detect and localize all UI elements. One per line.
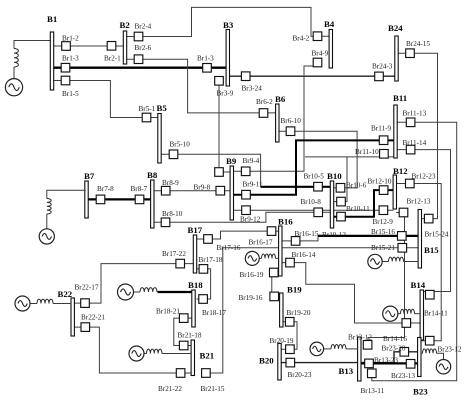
wire branch 16-17: [196, 231, 279, 239]
wire gen G18 to B18 (thick): [158, 291, 193, 293]
generator G7: [39, 190, 86, 244]
breaker Br21-22: [176, 369, 185, 378]
svg-text:Br16-17: Br16-17: [249, 238, 273, 246]
generator G18: [118, 284, 158, 300]
svg-text:Br20-23: Br20-23: [288, 371, 312, 379]
breaker Br10-8: [314, 208, 323, 217]
wire branch 1-3 (thick): [52, 67, 226, 69]
breaker Br20-23: [286, 358, 295, 367]
bus B8: [147, 170, 158, 228]
breaker Br11-14: [406, 145, 415, 154]
generator G1: [5, 49, 22, 96]
bus B13: [339, 337, 362, 381]
bus B23: [413, 338, 428, 397]
wire branch 3-9: [218, 85, 220, 167]
svg-text:B8: B8: [147, 170, 158, 180]
svg-text:Br18-21: Br18-21: [156, 308, 180, 316]
svg-text:Br17-16: Br17-16: [217, 244, 241, 252]
svg-text:Br22-17: Br22-17: [75, 284, 99, 292]
bus B7: [84, 171, 95, 218]
bus B17: [188, 225, 203, 273]
svg-text:Br19-20: Br19-20: [287, 309, 311, 317]
svg-text:B9: B9: [226, 156, 237, 166]
breaker Br8-10: [161, 218, 170, 227]
svg-text:Br1-5: Br1-5: [62, 90, 79, 98]
breaker Br13-12: [363, 341, 372, 350]
breaker Br6-2: [259, 109, 268, 118]
breaker Br8-9: [161, 186, 170, 195]
breaker Br18-17: [199, 295, 208, 304]
breaker Br1-3 (B3 side): [203, 64, 212, 73]
svg-text:Br11-13: Br11-13: [403, 109, 427, 117]
generator G23: [421, 349, 451, 374]
svg-text:Br10-11: Br10-11: [346, 205, 370, 213]
svg-text:Br23-12: Br23-12: [438, 345, 462, 353]
generator G13: [310, 342, 358, 356]
svg-text:Br1-3: Br1-3: [197, 54, 214, 62]
breaker Br21-15: [202, 369, 211, 378]
svg-text:Br16-19: Br16-19: [240, 271, 264, 279]
wire branch 17-22: [74, 264, 194, 304]
svg-text:Br6-10: Br6-10: [281, 117, 302, 125]
breaker Br11-9: [379, 136, 388, 145]
breaker Br2-6: [134, 55, 143, 64]
svg-text:Br8-9: Br8-9: [162, 179, 179, 187]
wire Br9-3 to bus: [223, 171, 230, 173]
breaker Br23-12: [425, 336, 434, 345]
bus B6: [275, 94, 286, 142]
breaker Br19-20: [285, 318, 294, 327]
breaker Br15-21: [398, 244, 407, 253]
wire branch 13-23 (thick): [361, 362, 418, 364]
bus B9: [226, 156, 237, 220]
breaker Br1-2: [62, 42, 71, 51]
svg-text:B15: B15: [424, 245, 439, 255]
wire branch 15-16 thick: [318, 235, 418, 237]
svg-text:Br19-16: Br19-16: [239, 294, 263, 302]
svg-text:Br3-24: Br3-24: [242, 85, 263, 93]
bus B14: [411, 280, 426, 340]
svg-text:Br1-3: Br1-3: [62, 55, 79, 63]
wire branch 4-9: [233, 66, 313, 171]
svg-text:Br23-20: Br23-20: [382, 344, 406, 352]
breaker Br16-19: [270, 268, 279, 277]
svg-text:Br14-11: Br14-11: [424, 310, 448, 318]
svg-text:B5: B5: [157, 103, 168, 113]
svg-text:Br10-12: Br10-12: [322, 231, 346, 239]
svg-text:B20: B20: [259, 356, 274, 366]
svg-text:Br9-12: Br9-12: [240, 216, 261, 224]
svg-text:Br4-2: Br4-2: [293, 34, 310, 42]
breaker Br7-8: [96, 195, 105, 204]
svg-text:Br12-13: Br12-13: [407, 198, 431, 206]
breaker Br12-23: [406, 179, 415, 188]
breaker Br6-10: [286, 127, 295, 136]
breaker Br2-1: [107, 42, 116, 51]
bus B3: [223, 20, 234, 86]
breaker Br12-13: [399, 208, 408, 217]
svg-text:B7: B7: [84, 171, 95, 181]
svg-text:Br17-22: Br17-22: [162, 250, 186, 258]
generator G14: [383, 306, 421, 321]
svg-text:Br20-19: Br20-19: [270, 337, 294, 345]
svg-text:B2: B2: [120, 20, 131, 30]
breaker Br16-15: [291, 237, 300, 246]
breaker Br13-23: [365, 359, 374, 368]
svg-text:B11: B11: [393, 93, 407, 103]
breaker Br10-11: [337, 197, 346, 206]
wire branch 2-4: [125, 7, 329, 36]
svg-text:B6: B6: [275, 94, 286, 104]
svg-text:Br11-14: Br11-14: [403, 139, 427, 147]
breaker Br20-19: [286, 345, 295, 354]
svg-text:Br3-9: Br3-9: [217, 90, 234, 98]
svg-text:Br8-10: Br8-10: [162, 210, 183, 218]
breaker Br9-12: [242, 206, 251, 215]
breaker Br15-16: [398, 232, 407, 241]
breaker Br10-5: [314, 182, 323, 191]
svg-text:B18: B18: [188, 280, 203, 290]
bus B12: [393, 166, 408, 209]
breaker Br9-4: [241, 167, 250, 176]
breaker Br5-1: [142, 113, 151, 122]
breaker Br11-10: [380, 150, 389, 159]
wire branch 1-5: [52, 81, 158, 118]
breaker Br17-16: [204, 235, 213, 244]
breaker Br21-18: [179, 341, 188, 350]
breaker Br16-17: [267, 227, 276, 236]
svg-text:Br21-18: Br21-18: [178, 331, 202, 339]
bus B18: [188, 280, 203, 327]
breaker Br19-16: [270, 292, 279, 301]
svg-text:B24: B24: [388, 23, 403, 33]
svg-text:Br12-23: Br12-23: [412, 173, 436, 181]
svg-text:B12: B12: [393, 166, 408, 176]
generator G15: [368, 254, 419, 268]
wire branch 2-6: [125, 59, 276, 113]
breaker Br12-10: [379, 186, 388, 195]
wire branch 3-24: [229, 75, 395, 77]
svg-text:B16: B16: [278, 217, 293, 227]
bus B11: [393, 93, 407, 158]
svg-text:B4: B4: [324, 19, 335, 29]
svg-text:Br13-23: Br13-23: [374, 357, 398, 365]
breaker Br4-9: [313, 58, 322, 67]
generator G16: [245, 251, 279, 265]
svg-text:Br9-11: Br9-11: [243, 180, 264, 188]
svg-text:Br9-4: Br9-4: [243, 157, 260, 165]
wire branch 8-10: [154, 212, 331, 222]
wire branch 5-10 thin: [161, 154, 261, 187]
svg-text:Br8-7: Br8-7: [131, 185, 148, 193]
wire gen1 to B1: [14, 41, 51, 49]
wire branch 10-12 (thick): [333, 190, 394, 217]
breaker Br22-17: [81, 299, 90, 308]
wire branch 18-21: [174, 318, 192, 345]
svg-text:Br13-11: Br13-11: [361, 387, 385, 395]
svg-text:Br11-9: Br11-9: [371, 125, 392, 133]
svg-text:Br14-16: Br14-16: [383, 335, 407, 343]
bus B22: [58, 289, 75, 336]
breaker Br11-13: [406, 118, 415, 127]
wire branch 15-16 thin: [282, 236, 318, 241]
wire branch 11-13: [372, 122, 457, 381]
wire branch 9-12: [233, 209, 393, 211]
svg-text:Br15-21: Br15-21: [371, 244, 395, 252]
breaker Br14-16: [402, 319, 411, 328]
svg-text:Br13-12: Br13-12: [348, 334, 372, 342]
svg-text:Br21-15: Br21-15: [201, 385, 225, 393]
breaker Br9-8: [216, 186, 225, 195]
wire branch 1-2: [52, 45, 124, 47]
wire branch 20-23: [281, 352, 418, 363]
wire branch 12-23: [396, 184, 441, 341]
svg-text:Br18-17: Br18-17: [202, 309, 226, 317]
breaker Br9-11: [242, 190, 251, 199]
bus B19: [280, 285, 303, 328]
wire branch 14-16: [282, 263, 421, 323]
svg-text:Br1-2: Br1-2: [62, 35, 79, 43]
wire Br16-19 stub: [277, 272, 280, 274]
wire branch 19-20: [281, 322, 297, 349]
svg-text:B14: B14: [411, 280, 426, 290]
wire branch 12-13: [368, 213, 405, 341]
svg-text:Br2-4: Br2-4: [135, 23, 152, 31]
generator G21: [129, 346, 191, 361]
svg-text:Br16-15: Br16-15: [295, 230, 319, 238]
svg-text:B17: B17: [188, 225, 203, 235]
svg-text:Br24-15: Br24-15: [406, 40, 430, 48]
breaker Br1-5: [61, 76, 70, 85]
breaker Br16-14: [286, 258, 295, 267]
svg-text:Br15-24: Br15-24: [425, 231, 449, 239]
breaker Br24-15: [406, 49, 415, 58]
breaker Br17-18: [199, 265, 208, 274]
svg-text:Br5-10: Br5-10: [170, 140, 191, 148]
bus B15: [418, 210, 439, 269]
svg-text:Br9-8: Br9-8: [194, 183, 211, 191]
breaker Br14-11: [426, 290, 435, 299]
wire branch 15-21: [210, 248, 418, 373]
breaker Br22-21: [81, 323, 90, 332]
breaker Br13-11: [368, 369, 377, 378]
breaker Br24-3: [375, 72, 384, 81]
svg-text:Br12-9: Br12-9: [373, 218, 394, 226]
svg-text:B22: B22: [58, 289, 73, 299]
breaker Br15-24: [424, 214, 433, 223]
generator G22: [15, 296, 71, 311]
breaker Br8-7: [135, 195, 144, 204]
breaker Br9-3: [215, 168, 224, 177]
breaker Br23-13: [406, 360, 415, 369]
wire branch 6-10: [279, 131, 357, 188]
wire branch 8-9: [154, 190, 231, 192]
bus B5: [157, 103, 168, 163]
wire branch 10-11: [305, 156, 394, 158]
svg-text:Br11-10: Br11-10: [355, 148, 379, 156]
breaker Br4-2: [313, 32, 322, 41]
breaker Br10-12: [337, 212, 346, 221]
svg-text:Br4-9: Br4-9: [312, 50, 329, 58]
svg-text:Br6-2: Br6-2: [256, 98, 273, 106]
svg-text:Br24-3: Br24-3: [372, 63, 393, 71]
svg-text:Br12-10: Br12-10: [368, 178, 392, 186]
svg-text:B1: B1: [47, 14, 57, 24]
breaker Br17-22: [176, 259, 185, 268]
breaker Br10-6: [336, 184, 345, 193]
breaker Br12-9: [379, 206, 388, 215]
svg-text:Br16-14: Br16-14: [292, 251, 316, 259]
breaker Br2-4: [134, 32, 143, 41]
breaker Br23-20: [400, 348, 409, 357]
wire branch 7-8 (thick): [88, 198, 151, 200]
wire Br19-16 stub: [279, 295, 280, 297]
svg-text:B10: B10: [327, 171, 342, 181]
svg-text:B3: B3: [223, 20, 234, 30]
svg-text:B23: B23: [413, 387, 428, 397]
breaker Br3-24: [241, 72, 250, 81]
wire branch 17-18: [196, 269, 210, 299]
wire branch 11-14: [397, 150, 451, 292]
breaker Br5-10: [169, 150, 178, 159]
svg-text:Br21-22: Br21-22: [158, 385, 182, 393]
svg-text:Br7-8: Br7-8: [97, 185, 114, 193]
svg-text:B19: B19: [287, 285, 302, 295]
breaker Br1-3: [61, 63, 70, 72]
wire branch 10-11 riser: [333, 157, 347, 202]
bus B4: [324, 19, 335, 68]
bus B24: [388, 23, 403, 81]
bus B1: [47, 14, 57, 90]
svg-text:Br2-6: Br2-6: [135, 44, 152, 52]
wire branch 22-21: [74, 327, 191, 373]
svg-text:Br10-8: Br10-8: [301, 198, 322, 206]
bus B16: [278, 217, 293, 277]
bus B20: [259, 344, 281, 381]
svg-text:Br22-21: Br22-21: [81, 314, 105, 322]
svg-text:Br17-18: Br17-18: [199, 256, 223, 264]
bus B21: [191, 340, 214, 376]
svg-text:Br2-1: Br2-1: [104, 54, 121, 62]
bus B2: [120, 20, 131, 64]
svg-text:Br23-13: Br23-13: [391, 372, 415, 380]
svg-text:B21: B21: [200, 351, 215, 361]
svg-text:Br5-1: Br5-1: [139, 105, 156, 113]
wire branch 16-19: [271, 273, 273, 297]
svg-text:Br10-6: Br10-6: [346, 182, 367, 190]
wire branch 24-15: [398, 53, 438, 218]
breaker Br18-21: [179, 314, 188, 323]
svg-text:Br15-16: Br15-16: [371, 228, 395, 236]
svg-text:Br10-5: Br10-5: [304, 173, 325, 181]
wire branch 9-11 (thick): [233, 140, 394, 194]
breaker Br3-9: [215, 77, 224, 86]
wire branch 5-10 thick: [261, 186, 331, 188]
bus B10: [327, 171, 342, 228]
svg-text:B13: B13: [339, 366, 354, 376]
